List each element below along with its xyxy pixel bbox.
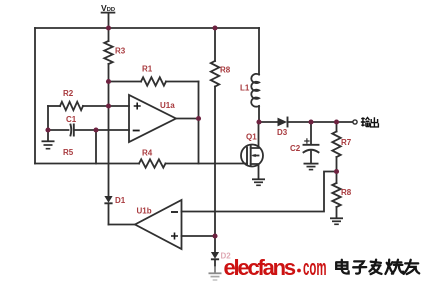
capacitor C2 bottom lead bbox=[310, 152, 312, 163]
ground lead below C1 bbox=[47, 130, 49, 141]
svg-text:D3: D3 bbox=[277, 128, 288, 137]
svg-text:U1b: U1b bbox=[137, 207, 152, 216]
svg-text:C2: C2 bbox=[290, 144, 301, 153]
wire U1a output bbox=[176, 118, 199, 120]
svg-text:R7: R7 bbox=[341, 138, 352, 147]
resistor R3 bbox=[104, 41, 112, 64]
wire R5 bbox=[95, 130, 97, 164]
svg-text:R2: R2 bbox=[63, 89, 74, 98]
label output chinese 输出 bbox=[361, 117, 379, 127]
resistor R1 leads bbox=[109, 81, 199, 83]
resistor R8b lead bbox=[336, 172, 338, 184]
node C1/R5 junction bbox=[93, 127, 98, 132]
transistor Q1 source stub bbox=[251, 164, 259, 179]
diode D2 lead bbox=[214, 260, 216, 267]
svg-text:R3: R3 bbox=[115, 47, 126, 56]
resistor R8a bbox=[211, 61, 219, 87]
op-amp U1b minus sign bbox=[171, 211, 178, 213]
node C2 top junction bbox=[308, 119, 313, 124]
resistor R1 bbox=[141, 77, 166, 85]
transistor Q1 channel bar bbox=[250, 146, 252, 166]
resistor R4 bbox=[139, 159, 166, 167]
wire R8a branch vertical bbox=[214, 28, 216, 252]
diode D1 lead bbox=[108, 204, 110, 225]
node Vdd rail junction bbox=[106, 25, 111, 30]
svg-text:R8: R8 bbox=[220, 66, 231, 75]
node U1a plus input junction bbox=[106, 103, 111, 108]
op-amp U1b plus sign bbox=[171, 233, 178, 240]
ground below C1 bbox=[42, 141, 55, 148]
svg-text:Q1: Q1 bbox=[246, 133, 257, 142]
transistor Q1 circle bbox=[241, 145, 263, 167]
wire top rail bbox=[35, 27, 259, 29]
wire R7 to node bbox=[336, 157, 338, 172]
svg-text:L1: L1 bbox=[240, 84, 250, 93]
ground below C2 bbox=[304, 164, 319, 170]
op-amp U1a minus sign bbox=[133, 130, 140, 132]
svg-text:C1: C1 bbox=[66, 115, 77, 124]
wire left border bbox=[34, 28, 36, 164]
wire U1b plus input bbox=[182, 235, 216, 237]
wire node to D3 bbox=[259, 121, 278, 123]
ground below D2 (faded) bbox=[209, 273, 222, 280]
resistor R7 top lead bbox=[336, 122, 338, 132]
mosfet Q1 arrow bbox=[251, 154, 256, 157]
svg-text:U1a: U1a bbox=[160, 101, 175, 110]
wire L1 bottom lead bbox=[258, 106, 260, 122]
wire R2 down to C1 bbox=[47, 106, 49, 130]
wire feedback jog bbox=[182, 172, 337, 212]
transistor Q1 drain stub bbox=[251, 122, 259, 148]
resistor R2 bbox=[60, 102, 83, 110]
diode D2 bbox=[211, 252, 219, 259]
op-amp U1a plus sign bbox=[134, 103, 141, 110]
diode D3 bar bbox=[287, 118, 289, 127]
svg-text:D1: D1 bbox=[115, 196, 126, 205]
node L1/D3/Q1 drain junction bbox=[256, 119, 261, 124]
wire D3 to output bbox=[288, 121, 353, 123]
ground below R8b bbox=[330, 218, 343, 224]
wire to U1b output apex bbox=[109, 224, 136, 226]
node U1a output junction bbox=[196, 116, 201, 121]
node U1b plus input junction bbox=[212, 233, 217, 238]
node C1 left junction bbox=[45, 127, 50, 132]
diode D3 bbox=[278, 118, 288, 127]
wire L1 top lead bbox=[258, 28, 260, 75]
op-amp U1a bbox=[129, 95, 176, 142]
output terminal circle bbox=[353, 120, 357, 124]
wire bottom line right of R4 to Q1 gate bbox=[166, 163, 248, 165]
svg-text:R1: R1 bbox=[142, 65, 153, 74]
capacitor C2 plus sign bbox=[305, 139, 309, 143]
capacitor C2 top lead bbox=[310, 122, 312, 144]
svg-text:elecfans: elecfans bbox=[224, 255, 296, 280]
resistor R2 lead bbox=[48, 105, 60, 107]
wire bottom line left of R4 bbox=[35, 163, 139, 165]
wire main vertical bbox=[108, 64, 110, 196]
diode D1 bbox=[104, 196, 112, 203]
svg-text:R5: R5 bbox=[63, 148, 74, 157]
transistor Q1 gate bar bbox=[246, 148, 248, 165]
capacitor C1 plates bbox=[71, 125, 74, 136]
capacitor C2 plates bbox=[304, 145, 319, 153]
inductor L1 bbox=[251, 74, 259, 107]
wire feedback vertical bbox=[198, 82, 200, 164]
svg-text:R8: R8 bbox=[341, 188, 352, 197]
resistor R7 bbox=[332, 132, 340, 158]
power bar Vdd bbox=[101, 12, 116, 14]
node R7/R8 divider junction bbox=[334, 169, 339, 174]
resistor R8b bbox=[332, 183, 340, 207]
capacitor C1 leads bbox=[48, 129, 129, 131]
ground below Q1 bbox=[252, 179, 265, 185]
watermark chinese 电子发烧友 bbox=[336, 260, 419, 275]
svg-text:R4: R4 bbox=[142, 149, 153, 158]
transistor Q1 body stub bbox=[254, 155, 259, 157]
resistor R8b bottom lead bbox=[336, 207, 338, 218]
svg-text:VDD: VDD bbox=[101, 3, 115, 13]
op-amp U1b bbox=[135, 200, 182, 249]
wire U1a plus input bbox=[83, 105, 129, 107]
node R8 top junction bbox=[212, 25, 217, 30]
power stem Vdd bbox=[108, 14, 110, 42]
node R7 top junction bbox=[334, 119, 339, 124]
node R3/R1 junction bbox=[106, 79, 111, 84]
svg-text:com: com bbox=[303, 255, 327, 280]
diode D2 faded lead bbox=[214, 266, 216, 273]
